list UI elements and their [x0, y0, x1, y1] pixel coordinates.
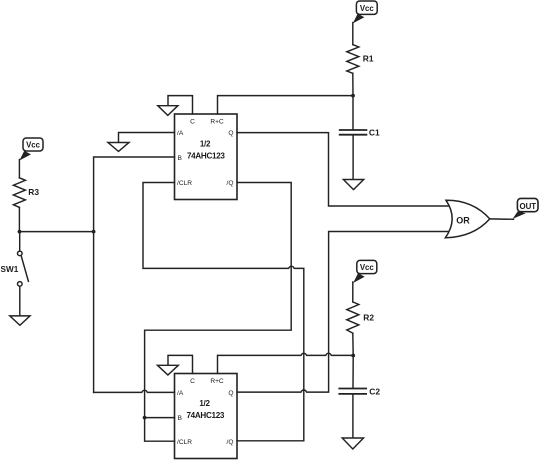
- op-amp U1 top monostable 74AHC123 box: [175, 114, 238, 200]
- capacitor C1: [340, 130, 367, 135]
- svg-text:C1: C1: [369, 128, 380, 138]
- resistor R1: [347, 45, 359, 74]
- power Vcc flag above R3: [19, 138, 43, 161]
- wire U2 C pin step to ground: [168, 355, 193, 373]
- wire R3 to switch node: [18, 207, 20, 231]
- wire SW1 to ground: [19, 286, 21, 316]
- wire U2 R+C to R2/C2 junction with hops: [218, 353, 354, 373]
- svg-text:1/2: 1/2: [200, 140, 211, 149]
- svg-text:R2: R2: [363, 313, 374, 323]
- ground below SW1: [10, 316, 30, 325]
- resistor R2: [347, 302, 359, 333]
- svg-text:R+C: R+C: [210, 378, 224, 385]
- wire U1 B to trigger line vertical: [94, 157, 175, 392]
- op-amp U2 bottom monostable 74AHC123 box: [175, 374, 238, 459]
- svg-text:R1: R1: [363, 53, 374, 63]
- wire U1 /A step to ground: [119, 133, 175, 143]
- svg-text:1/2: 1/2: [199, 399, 210, 408]
- wire U1 C pin step to ground: [168, 96, 193, 114]
- svg-text:/CLR: /CLR: [177, 439, 192, 446]
- node junction on U2 B branch: [143, 416, 147, 420]
- wire Vcc to R1: [352, 23, 354, 45]
- wire R1 bottom through junction to C1: [352, 73, 354, 129]
- power Vcc flag above R2: [353, 260, 377, 283]
- svg-text:/CLR: /CLR: [177, 180, 192, 187]
- node junction R3/SW1: [18, 230, 22, 234]
- node junction trigger line: [92, 230, 96, 234]
- svg-text:OUT: OUT: [519, 202, 536, 211]
- OR gate: [445, 200, 490, 238]
- wire branch to U2 B: [145, 417, 175, 419]
- wire U1 R+C pin to R1/C1 junction: [218, 96, 354, 114]
- wire C1 to ground: [352, 136, 354, 180]
- switch SW1: [18, 251, 29, 286]
- wire U2 Q to OR gate bottom input with hop: [237, 232, 449, 393]
- svg-text:C2: C2: [369, 387, 380, 397]
- svg-text:B: B: [178, 415, 183, 422]
- wire Vcc to R2: [352, 282, 354, 302]
- wire U2 /A from trigger line with hop: [94, 390, 175, 392]
- wire switch node to trigger line: [20, 231, 94, 233]
- wire R2 to junction to C2: [352, 333, 354, 387]
- power Vcc flag above R1: [353, 1, 377, 23]
- wire Vcc to R3: [18, 160, 20, 178]
- node junction R2/C2/R+C: [351, 354, 355, 358]
- wire C2 to ground: [352, 395, 354, 438]
- resistor R3: [13, 178, 25, 208]
- svg-text:74AHC123: 74AHC123: [186, 411, 224, 420]
- svg-text:R3: R3: [28, 187, 39, 197]
- svg-text:Q: Q: [228, 130, 233, 137]
- ground near U1 C pin: [158, 106, 178, 116]
- svg-text:Q: Q: [228, 390, 233, 397]
- svg-text:SW1: SW1: [1, 265, 19, 274]
- ground near U2 C pin: [158, 365, 179, 375]
- ground below C2: [342, 438, 363, 449]
- svg-text:/A: /A: [177, 390, 184, 397]
- wire U1 /CLR loop to U2 /Q with hop: [143, 183, 304, 441]
- svg-text:B: B: [178, 155, 183, 162]
- svg-text:R+C: R+C: [210, 118, 224, 125]
- svg-text:Vcc: Vcc: [26, 141, 41, 150]
- svg-text:Vcc: Vcc: [360, 263, 375, 272]
- ground at U1 /A: [108, 143, 129, 152]
- wire U1 Q to OR gate top input: [237, 133, 449, 206]
- svg-text:/A: /A: [177, 130, 184, 137]
- wire OR output to OUT: [490, 218, 514, 220]
- wire node to SW1: [19, 232, 21, 252]
- svg-text:/Q: /Q: [227, 180, 234, 187]
- svg-text:C: C: [190, 118, 195, 125]
- svg-text:Vcc: Vcc: [360, 4, 375, 13]
- wire U1 /Q loop to U2 /CLR: [145, 183, 292, 442]
- svg-text:74AHC123: 74AHC123: [187, 151, 225, 160]
- node junction R1/C1/R+C: [351, 94, 355, 98]
- svg-text:/Q: /Q: [227, 439, 234, 446]
- ground below C1: [343, 180, 363, 190]
- svg-text:C: C: [190, 378, 195, 385]
- svg-text:OR: OR: [456, 215, 470, 225]
- port OUT flag: [513, 198, 538, 219]
- capacitor C2: [339, 389, 366, 394]
